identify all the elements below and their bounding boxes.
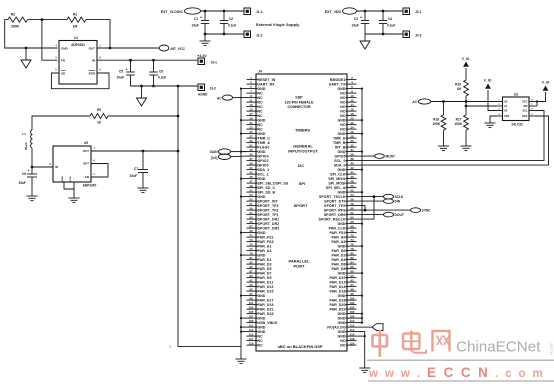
svg-text:C4: C4: [388, 17, 392, 21]
svg-text:GND: GND: [258, 150, 266, 154]
svg-text:PAR_CLK: PAR_CLK: [329, 226, 346, 230]
svg-text:76: 76: [350, 242, 354, 246]
J4 pin 28 (TMR_D) right: [346, 137, 357, 139]
svg-text:EXT_VLOGIC: EXT_VLOGIC: [161, 10, 184, 14]
svg-text:100K: 100K: [454, 122, 462, 126]
svg-text:72: 72: [350, 233, 354, 237]
svg-text:70: 70: [350, 229, 354, 233]
svg-text:99: 99: [249, 296, 253, 300]
svg-text:SPORT_DR3: SPORT_DR3: [258, 226, 280, 230]
svg-text:NC: NC: [258, 339, 264, 343]
svg-text:PAR_A0: PAR_A0: [331, 235, 345, 239]
svg-text:NC: NC: [340, 114, 346, 118]
svg-text:GPIO2: GPIO2: [258, 159, 269, 163]
svg-text:28: 28: [350, 134, 354, 138]
node J1-1 header: [244, 8, 251, 15]
svg-text:106: 106: [350, 310, 355, 314]
J4 pin 9 (NC) left: [247, 97, 258, 99]
wire AGND vertical drop: [178, 86, 241, 346]
J4 pin 32 (INT_B) right: [346, 146, 357, 148]
wire SD-ERR loop: [51, 73, 109, 89]
svg-text:R18: R18: [433, 118, 439, 122]
op-amp U1 ADP3331 body: [59, 41, 97, 85]
U3 pin WP: [529, 105, 537, 107]
svg-text:PAR_D20: PAR_D20: [329, 303, 345, 307]
resistor R18: [443, 102, 445, 116]
ground C7: [138, 187, 149, 189]
J4 pin 34 (GND) right: [346, 151, 357, 153]
J4 pin 65 (SPORT_DR2) left: [247, 223, 258, 225]
svg-text:SCL_1: SCL_1: [258, 172, 269, 176]
svg-text:36: 36: [350, 152, 354, 156]
svg-text:NC: NC: [258, 114, 264, 118]
wire C3-C4 bottom rail to J2-3: [365, 33, 403, 35]
svg-text:GND: GND: [337, 168, 345, 172]
svg-text:GPIO0: GPIO0: [258, 163, 269, 167]
svg-text:PAR_D6: PAR_D6: [331, 262, 345, 266]
svg-text:NC: NC: [258, 123, 264, 127]
J4 pin 7 (NC) left: [247, 92, 258, 94]
svg-text:0.1uF: 0.1uF: [387, 24, 395, 28]
node J3-2 header: [198, 84, 205, 91]
svg-text:SPI_SD_B: SPI_SD_B: [258, 190, 276, 194]
ground EXT_VLOGIC: [204, 34, 206, 41]
svg-text:64: 64: [350, 215, 354, 219]
svg-text:1K: 1K: [97, 121, 102, 125]
svg-text:+3.3V: +3.3V: [197, 54, 207, 58]
svg-text:15: 15: [249, 107, 253, 111]
svg-text:53: 53: [249, 193, 253, 197]
svg-text:55: 55: [249, 197, 253, 201]
J4 pin 49 (SPI_SD_C) left: [247, 187, 258, 189]
wire right bottom GND rows to ground: [357, 332, 365, 368]
J4 pin 30 (TMR_B) right: [346, 142, 357, 144]
svg-text:PAR_D23: PAR_D23: [258, 312, 274, 316]
J4 pin 42 (GND) right: [346, 169, 357, 171]
svg-text:A1: A1: [504, 104, 508, 108]
svg-text:PAR_D9: PAR_D9: [258, 276, 272, 280]
J4 pin 5 (GND) left: [247, 88, 258, 90]
svg-text:PAR_D11: PAR_D11: [258, 280, 274, 284]
svg-text:100: 100: [350, 296, 355, 300]
svg-text:103: 103: [249, 305, 254, 309]
svg-text:94: 94: [350, 283, 354, 287]
ground U3 VSS: [485, 122, 496, 124]
svg-text:57: 57: [249, 202, 253, 206]
svg-text:NC: NC: [258, 105, 264, 109]
svg-text:110: 110: [350, 319, 355, 323]
J4 pin 76 (GND) right: [346, 245, 357, 247]
J4 pin 44 (SPI_CLK) right: [346, 173, 357, 175]
svg-text:w w w . E C C N . c o m: w w w . E C C N . c o m: [368, 365, 545, 380]
svg-text:SPORT_TF3: SPORT_TF3: [258, 204, 279, 208]
svg-text:114: 114: [350, 328, 355, 332]
svg-text:ERR: ERR: [89, 72, 96, 76]
svg-text:SPORT_DR1: SPORT_DR1: [258, 217, 280, 221]
svg-text:DIN: DIN: [395, 200, 401, 204]
J4 pin 93 (PAR_D13) left: [247, 286, 258, 288]
svg-text:78: 78: [350, 247, 354, 251]
svg-text:OUT: OUT: [89, 47, 96, 51]
resistor R17: [464, 115, 469, 130]
svg-text:OUT: OUT: [83, 149, 90, 153]
svg-text:82: 82: [350, 256, 354, 260]
op-amp U3 24LC32 body: [503, 97, 530, 121]
svg-text:GND: GND: [61, 47, 69, 51]
U3 pin VCC: [529, 101, 535, 103]
J4 pin 105 (PAR_D23) left: [247, 313, 258, 315]
svg-text:77: 77: [249, 247, 253, 251]
J4 pin 91 (PAR_D11) left: [247, 281, 258, 283]
J4 pin 22 (NC) right: [346, 124, 357, 126]
svg-text:V_IO: V_IO: [542, 81, 550, 85]
wire SCL_0 to U3 SCL: [357, 111, 545, 161]
svg-text:PAR_D18: PAR_D18: [329, 298, 345, 302]
J4 pin 82 (PAR_D4) right: [346, 259, 357, 261]
svg-text:PAR_D8: PAR_D8: [331, 267, 345, 271]
svg-text:U5: U5: [84, 141, 88, 145]
svg-text:GND: GND: [337, 334, 345, 338]
ground AGND rail: [141, 86, 143, 98]
resistor R16: [464, 80, 469, 96]
svg-text:46: 46: [350, 175, 354, 179]
J4 pin 63 (SPORT_DR1) left: [247, 218, 258, 220]
J4 pin 33 (GND) left: [247, 151, 258, 153]
J4 pin 64 (SPORT_RSCLK) right: [346, 218, 357, 220]
U3 pin SDA: [529, 115, 535, 117]
svg-text:PAR_D15: PAR_D15: [258, 289, 274, 293]
svg-text:48: 48: [350, 179, 354, 183]
svg-text:49: 49: [249, 184, 253, 188]
J4 pin 43 (SCL_1) left: [247, 173, 258, 175]
svg-text:GND: GND: [258, 294, 266, 298]
svg-text:GND: GND: [258, 177, 266, 181]
svg-text:INT_VCC: INT_VCC: [171, 47, 186, 51]
svg-text:NC: NC: [340, 343, 346, 347]
svg-text:41: 41: [249, 166, 253, 170]
svg-text:TMR_D: TMR_D: [333, 136, 346, 140]
svg-text:98: 98: [350, 292, 354, 296]
svg-text:J3-2: J3-2: [210, 87, 217, 91]
svg-text:58: 58: [350, 202, 354, 206]
svg-text:GND: GND: [258, 253, 266, 257]
J4 pin 6 (GND) right: [346, 88, 357, 90]
svg-text:PAR_D2: PAR_D2: [331, 253, 345, 257]
J4 pin 80 (PAR_D2) right: [346, 254, 357, 256]
J4 pin 23 (NC) left: [247, 128, 258, 130]
svg-text:C2: C2: [229, 17, 233, 21]
svg-text:67: 67: [249, 224, 253, 228]
svg-text:ChinaECNet: ChinaECNet: [456, 339, 541, 356]
svg-text:TMR_C: TMR_C: [258, 136, 271, 140]
svg-text:SPORT_TF1: SPORT_TF1: [258, 213, 279, 217]
svg-text:IN: IN: [92, 59, 95, 63]
svg-text:108: 108: [350, 314, 355, 318]
svg-text:GND: GND: [337, 132, 345, 136]
capacitor C6: [31, 167, 33, 174]
svg-text:119: 119: [249, 341, 254, 345]
svg-text:0.1uF: 0.1uF: [228, 24, 236, 28]
svg-text:PAR_FS2: PAR_FS2: [329, 231, 345, 235]
J4 pin 17 (NC) left: [247, 115, 258, 117]
svg-text:63: 63: [249, 215, 253, 219]
node J2-3 header: [403, 31, 410, 38]
J4 pin 10 (NC) right: [346, 97, 357, 99]
svg-text:J3-1: J3-1: [211, 61, 218, 65]
svg-text:GND: GND: [258, 118, 266, 122]
svg-text:23: 23: [249, 125, 253, 129]
J4 pin 69 (GND) left: [247, 232, 258, 234]
U3 pin VSS: [497, 115, 503, 117]
svg-text:DOUT: DOUT: [395, 213, 404, 217]
svg-text:45: 45: [249, 175, 253, 179]
J4 pin 25 (GND) left: [247, 133, 258, 135]
svg-text:19: 19: [249, 116, 253, 120]
J4 pin 50 (SPI_SEL_A) right: [346, 187, 357, 189]
svg-text:27: 27: [249, 134, 253, 138]
svg-text:92: 92: [350, 278, 354, 282]
wire U3 VSS to ground: [490, 116, 497, 123]
J4 pin 29 (TMR_A) left: [247, 142, 258, 144]
wire U1 IN to +3.3V rail: [97, 59, 198, 61]
svg-text:USB_VBUS: USB_VBUS: [258, 321, 278, 325]
wire TFS-RFS tie: [357, 206, 366, 211]
J4 pin 39 (GPIO0) left: [247, 164, 258, 166]
svg-text:NC: NC: [340, 109, 346, 113]
svg-text:UART_TX: UART_TX: [329, 82, 346, 86]
svg-text:10uF: 10uF: [192, 24, 199, 28]
J4 pin 81 (PAR_D1) left: [247, 259, 258, 261]
svg-text:PAR_FS3: PAR_FS3: [258, 240, 274, 244]
svg-text:SPORT_DR0: SPORT_DR0: [324, 213, 346, 217]
svg-text:PAR_D0: PAR_D0: [331, 249, 345, 253]
svg-text:PAR_D21: PAR_D21: [258, 307, 274, 311]
J4 pin 31 (FLAG0) left: [247, 146, 258, 148]
svg-text:100K: 100K: [432, 122, 440, 126]
svg-text:81: 81: [249, 256, 253, 260]
resistor R2: [8, 17, 28, 22]
J4 pin 109 (USB_VBUS) left: [247, 322, 258, 324]
svg-text:10: 10: [350, 94, 354, 98]
svg-text:PAR_D5: PAR_D5: [258, 267, 272, 271]
node DIN tag: [357, 200, 384, 202]
svg-text:GND: GND: [258, 325, 266, 329]
svg-text:SPORT_RFS: SPORT_RFS: [324, 208, 346, 212]
resistor R1: [67, 17, 86, 22]
svg-text:SPORT_DR2: SPORT_DR2: [258, 222, 280, 226]
J4 pin 86 (PAR_D8) right: [346, 268, 357, 270]
svg-text:ADP3331: ADP3331: [71, 43, 85, 47]
svg-text:38: 38: [350, 157, 354, 161]
svg-text:+: +: [360, 16, 362, 20]
wire R2-R1 top with FB branch: [28, 19, 68, 21]
svg-text:PAR_D1: PAR_D1: [258, 258, 272, 262]
svg-text:89: 89: [249, 274, 253, 278]
J4 pin 104 (PAR_D22) right: [346, 308, 357, 310]
svg-text:SPORT_INT: SPORT_INT: [258, 199, 279, 203]
watermark char dian: [403, 331, 426, 353]
J4 pin 51 (SPI_SD_B) left: [247, 191, 258, 193]
svg-text:85: 85: [249, 265, 253, 269]
svg-text:External Vlogic Supply: External Vlogic Supply: [256, 22, 300, 27]
watermark char zhong: [373, 330, 388, 357]
svg-text:R5: R5: [97, 108, 101, 112]
svg-text:SDP: SDP: [295, 96, 303, 100]
svg-text:60: 60: [350, 206, 354, 210]
wire R5 right to AGND drop: [108, 115, 178, 117]
wire TSCLK-RSCLK tie: [357, 197, 375, 220]
svg-text:29: 29: [249, 139, 253, 143]
svg-text:ADP3367: ADP3367: [83, 184, 97, 188]
wire R5 left to L1: [32, 116, 90, 130]
svg-text:TMR_A: TMR_A: [258, 141, 271, 145]
svg-text:R1: R1: [73, 13, 77, 17]
svg-text:+: +: [28, 169, 30, 173]
svg-text:J2-3: J2-3: [415, 34, 422, 38]
svg-text:J1-2: J1-2: [256, 34, 263, 38]
svg-text:GND: GND: [258, 132, 266, 136]
svg-text:SPORT_TFS: SPORT_TFS: [324, 204, 346, 208]
svg-text:74: 74: [350, 238, 354, 242]
svg-text:35: 35: [249, 152, 253, 156]
svg-text:PAR_D3: PAR_D3: [258, 262, 272, 266]
J4 pin 66 (GND) right: [346, 223, 357, 225]
J4 pin 84 (PAR_D6) right: [346, 263, 357, 265]
svg-text:51: 51: [249, 188, 253, 192]
svg-text:300K: 300K: [11, 25, 20, 29]
svg-text:GPIO5: GPIO5: [334, 154, 345, 158]
svg-text:R17: R17: [456, 118, 462, 122]
ground left bus: [236, 358, 247, 360]
svg-text:11: 11: [249, 98, 252, 102]
J4 pin 53 (GND) left: [247, 196, 258, 198]
svg-text:GND: GND: [337, 271, 345, 275]
svg-text:U1: U1: [74, 36, 78, 40]
svg-text:PAR_D7: PAR_D7: [258, 271, 272, 275]
J4 pin 48 (SPI_MOSI) right: [346, 182, 357, 184]
J4 pin 41 (SDA_1) left: [247, 169, 258, 171]
J4 pin 12 (NC) right: [346, 101, 357, 103]
J4 pin 19 (GND) left: [247, 119, 258, 121]
svg-text:SCL_0: SCL_0: [334, 159, 345, 163]
svg-text:J4: J4: [258, 70, 262, 74]
svg-text:PAR_A1: PAR_A1: [258, 244, 272, 248]
svg-text:NC: NC: [340, 339, 346, 343]
svg-text:1M: 1M: [457, 87, 462, 91]
svg-text:42: 42: [350, 166, 354, 170]
svg-text:62: 62: [350, 211, 354, 215]
wire WP tie to VCC: [536, 102, 538, 107]
svg-text:SDA_0: SDA_0: [334, 163, 346, 167]
svg-text:SPI_CLK: SPI_CLK: [330, 172, 346, 176]
svg-text:44: 44: [350, 170, 354, 174]
svg-text:68: 68: [350, 224, 354, 228]
capacitor C5: [129, 59, 132, 62]
svg-text:C1: C1: [194, 17, 198, 21]
J4 pin 55 (SPORT_INT) left: [247, 200, 258, 202]
svg-text:97: 97: [249, 292, 253, 296]
J4 pin 98 (GND) right: [346, 295, 357, 297]
J4 pin 40 (SDA_0) right: [346, 164, 357, 166]
J4 pin 94 (PAR_D14) right: [346, 286, 357, 288]
svg-text:59: 59: [249, 206, 253, 210]
svg-text:L1: L1: [22, 132, 26, 136]
svg-text:PAR_A2: PAR_A2: [331, 240, 345, 244]
svg-text:NC: NC: [340, 127, 346, 131]
J4 pin 102 (PAR_D20) right: [346, 304, 357, 306]
J4 pin 4 (UART_TX) right: [346, 83, 357, 85]
svg-text:SPI: SPI: [299, 181, 305, 186]
J4 pin 35 (GPIO4) left: [247, 155, 258, 157]
svg-text:1M: 1M: [73, 25, 78, 29]
J4 pin 56 (SPORT_DT0) right: [346, 200, 357, 202]
svg-text:113: 113: [249, 328, 254, 332]
svg-text:96: 96: [350, 287, 354, 291]
J4 pin 90 (PAR_D10) right: [346, 277, 357, 279]
U3 pin A1: [497, 105, 503, 107]
wire C1-C2 bottom rail to J1-2: [205, 33, 244, 35]
J4 pin 114 (GND) right: [346, 331, 357, 333]
J4 pin 103 (PAR_D21) left: [247, 308, 258, 310]
wire left GND bus: [240, 89, 242, 359]
J4 pin 38 (SCL_0) right: [346, 160, 357, 162]
svg-text:SPI_SEL1/SPI_SS: SPI_SEL1/SPI_SS: [258, 181, 289, 185]
ground (U1 input): [25, 48, 27, 60]
svg-text:17: 17: [249, 112, 253, 116]
svg-text:BEAD: BEAD: [24, 142, 28, 149]
J4 pin 95 (PAR_D15) left: [247, 290, 258, 292]
J4 pin 118 (NC) right: [346, 340, 357, 342]
svg-text:SPI_MOSI: SPI_MOSI: [328, 181, 345, 185]
J4 pin 52 (GND) right: [346, 191, 357, 193]
svg-text:91: 91: [249, 278, 253, 282]
svg-text:GND: GND: [258, 231, 266, 235]
J4 pin 62 (SPORT_DR0) right: [346, 214, 357, 216]
J4 pin 85 (PAR_D5) left: [247, 268, 258, 270]
svg-text:107: 107: [249, 314, 254, 318]
capacitor C4: [382, 11, 384, 21]
J4 pin 46 (SPI_MISO) right: [346, 178, 357, 180]
wire AGND rail: [131, 85, 199, 87]
svg-text:GND: GND: [337, 321, 345, 325]
svg-text:75: 75: [249, 242, 253, 246]
J4 pin 61 (SPORT_TF1) left: [247, 214, 258, 216]
svg-text:NC: NC: [258, 343, 264, 347]
svg-text:C7: C7: [134, 167, 138, 171]
node J2-1 header: [403, 8, 410, 15]
svg-text:PAR_D13: PAR_D13: [258, 285, 274, 289]
J4 pin 115 (NC) left: [247, 335, 258, 337]
svg-text:0.1uF: 0.1uF: [158, 76, 166, 80]
svg-text:93: 93: [249, 283, 253, 287]
node INT_VCC tag: [159, 45, 169, 51]
svg-text:39: 39: [249, 161, 253, 165]
svg-text:V_IO: V_IO: [484, 79, 492, 83]
svg-text:IN: IN: [55, 165, 58, 169]
svg-text:120-PIN FEMALE: 120-PIN FEMALE: [285, 100, 315, 104]
node J1-2 header: [244, 31, 251, 38]
svg-text:SHDN: SHDN: [62, 175, 64, 182]
svg-text:PORT: PORT: [293, 264, 305, 269]
svg-text:VIO(A3.3V): VIO(A3.3V): [327, 325, 346, 329]
svg-text:102: 102: [350, 301, 355, 305]
J4 pin 101 (PAR_D19) left: [247, 304, 258, 306]
svg-text:PAR_D12: PAR_D12: [329, 280, 345, 284]
svg-text:112: 112: [350, 323, 355, 327]
J4 pin 1 (RESET_IN) left: [247, 79, 258, 81]
svg-text:69: 69: [249, 229, 253, 233]
svg-text:INT_B: INT_B: [335, 145, 346, 149]
